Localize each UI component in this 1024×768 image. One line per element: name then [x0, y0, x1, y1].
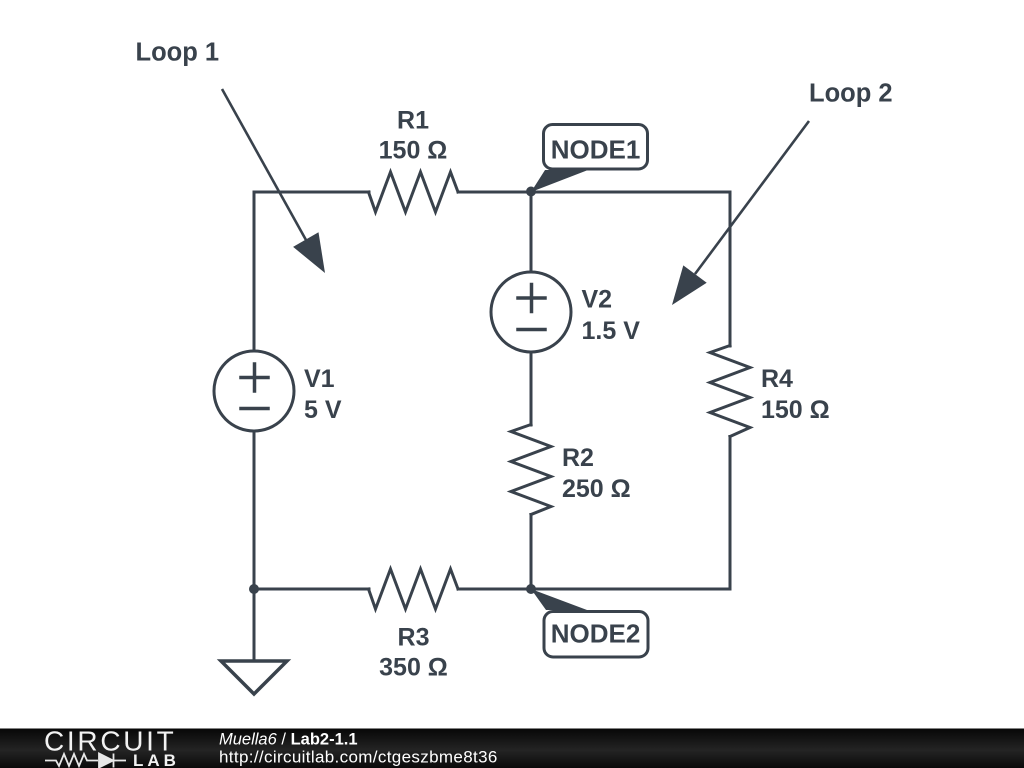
voltage source V2: [491, 272, 571, 352]
resistor R3: [369, 569, 459, 609]
resistor R2: [511, 425, 551, 515]
svg-text:150 Ω: 150 Ω: [379, 137, 448, 165]
svg-text:Loop 1: Loop 1: [136, 39, 220, 67]
wire right upper: [729, 192, 732, 346]
wire right lower: [729, 437, 732, 590]
svg-text:1.5 V: 1.5 V: [582, 317, 641, 345]
footer logo resistor-diode squiggle: [45, 754, 126, 768]
wire left lower: [253, 431, 256, 589]
svg-text:Loop 2: Loop 2: [809, 80, 893, 108]
svg-text:5 V: 5 V: [304, 396, 342, 424]
svg-text:R4: R4: [761, 365, 793, 393]
wire mid lower: [530, 515, 533, 590]
annotation arrow Loop 1: [222, 89, 325, 273]
svg-text:Muella6 / Lab2-1.1: Muella6 / Lab2-1.1: [219, 731, 358, 749]
wire left upper: [253, 192, 256, 351]
node junction dot NODE1: [526, 187, 536, 197]
node junction dot ground: [249, 584, 259, 594]
node NODE1 callout: [531, 125, 648, 193]
wire top-left segment: [254, 191, 369, 194]
svg-text:NODE2: NODE2: [551, 619, 641, 649]
resistor R1: [369, 172, 459, 212]
voltage source V1: [214, 351, 294, 431]
svg-text:R2: R2: [562, 444, 594, 472]
svg-text:150 Ω: 150 Ω: [761, 396, 830, 424]
svg-text:V2: V2: [582, 286, 613, 314]
wire ground stem: [253, 589, 256, 661]
wire mid middle: [530, 352, 533, 425]
resistor R4: [710, 346, 750, 437]
wire bottom-left segment: [254, 588, 369, 591]
svg-text:NODE1: NODE1: [551, 135, 641, 165]
svg-text:250 Ω: 250 Ω: [562, 475, 631, 503]
svg-text:R1: R1: [397, 107, 429, 135]
wire mid upper: [530, 192, 533, 272]
annotation arrow Loop 2: [672, 121, 809, 305]
node junction dot NODE2: [526, 584, 536, 594]
svg-text:V1: V1: [304, 365, 335, 393]
svg-text:350 Ω: 350 Ω: [379, 654, 448, 682]
wire top-right segment: [458, 191, 730, 194]
footer bar: [0, 729, 1024, 768]
ground: [221, 661, 287, 694]
node NODE2 callout: [531, 589, 648, 657]
svg-text:http://circuitlab.com/ctgeszbm: http://circuitlab.com/ctgeszbme8t36: [219, 748, 498, 767]
wire bottom-right segment: [458, 588, 730, 591]
svg-text:R3: R3: [398, 624, 430, 652]
svg-text:LAB: LAB: [133, 751, 180, 768]
